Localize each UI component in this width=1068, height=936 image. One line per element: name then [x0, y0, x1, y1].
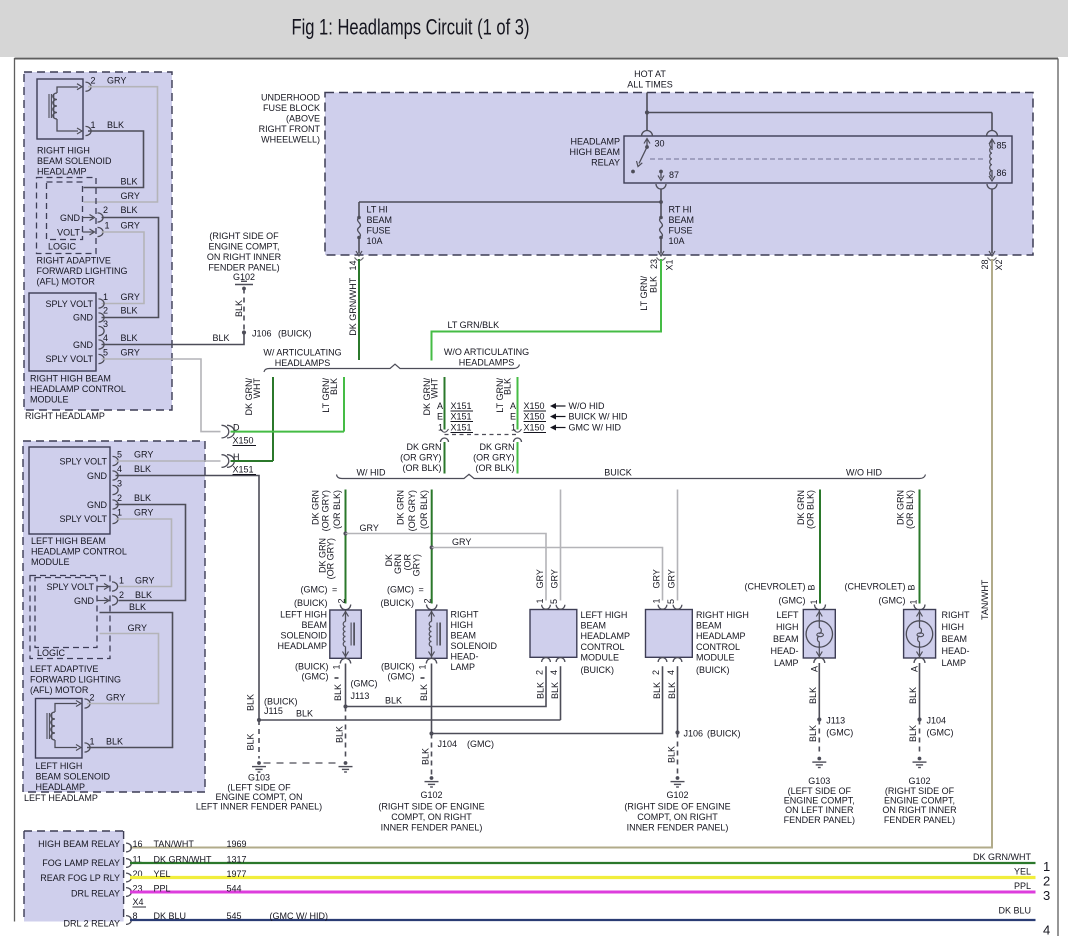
wire BLK left solenoid pin1 to logic: [87, 613, 173, 748]
svg-text:FENDER PANEL): FENDER PANEL): [884, 815, 955, 825]
wire BLK right mid solenoid to J104: [431, 664, 433, 734]
left AFL logic dashed box: [35, 578, 97, 648]
svg-text:(OR BLK): (OR BLK): [402, 463, 441, 473]
relay switch fixed contact: [631, 170, 635, 174]
svg-text:GRY: GRY: [134, 450, 153, 460]
wire hot feed into fuse block: [646, 93, 648, 113]
svg-text:(OR GRY): (OR GRY): [407, 490, 417, 531]
svg-text:Fig 1: Headlamps Circuit (1 of: Fig 1: Headlamps Circuit (1 of 3): [292, 15, 530, 40]
svg-text:PPL: PPL: [1014, 881, 1031, 891]
frame border top: [15, 58, 1059, 60]
ground at J113: [344, 761, 348, 765]
svg-text:SPLY VOLT: SPLY VOLT: [59, 457, 107, 467]
right mid solenoid bottom pin: [426, 658, 436, 663]
svg-text:X151: X151: [451, 412, 472, 422]
svg-text:SPLY VOLT: SPLY VOLT: [59, 514, 107, 524]
svg-text:(LEFT SIDE OF: (LEFT SIDE OF: [227, 782, 291, 792]
svg-text:5: 5: [117, 450, 122, 460]
svg-text:GRY: GRY: [651, 569, 661, 588]
svg-text:GND: GND: [87, 500, 108, 510]
wire TAN/WHT from relay to bottom relay box pin16: [130, 259, 992, 848]
svg-text:(RIGHT SIDE OF: (RIGHT SIDE OF: [885, 786, 955, 796]
wire BLK dashed J104 to ground: [431, 734, 433, 776]
svg-text:(AFL) MOTOR: (AFL) MOTOR: [37, 277, 96, 287]
svg-text:CONTROL: CONTROL: [696, 642, 740, 652]
svg-text:GRY: GRY: [135, 576, 154, 586]
svg-text:CONTROL: CONTROL: [581, 642, 625, 652]
svg-text:GND: GND: [73, 313, 94, 323]
svg-text:1: 1: [117, 508, 122, 518]
left module pin 4: [113, 471, 119, 480]
svg-text:LT GRN/: LT GRN/: [639, 276, 649, 311]
svg-text:E: E: [510, 412, 516, 422]
svg-text:GRY: GRY: [121, 191, 140, 201]
svg-text:A: A: [437, 401, 443, 411]
svg-text:FUSE BLOCK: FUSE BLOCK: [263, 103, 320, 113]
wire LT GRN/BLK from RT fuse: [432, 259, 662, 361]
svg-text:(GMC): (GMC): [467, 739, 494, 749]
svg-text:2: 2: [651, 670, 661, 675]
svg-text:GRN: GRN: [393, 554, 403, 574]
svg-text:3: 3: [103, 319, 108, 329]
svg-text:GRY: GRY: [535, 569, 545, 588]
left module pin 5: [113, 456, 119, 465]
svg-text:BLK: BLK: [536, 682, 546, 699]
svg-text:ALL TIMES: ALL TIMES: [627, 80, 673, 90]
svg-text:(OR GRY): (OR GRY): [400, 453, 441, 463]
svg-text:DK GRN: DK GRN: [406, 442, 441, 452]
svg-text:HOT AT: HOT AT: [634, 69, 666, 79]
svg-text:(LEFT SIDE OF: (LEFT SIDE OF: [788, 786, 852, 796]
svg-text:FUSE: FUSE: [669, 226, 693, 236]
svg-text:WHEELWELL): WHEELWELL): [261, 135, 320, 145]
relay pin 30 connector arc: [642, 131, 653, 137]
svg-text:GND: GND: [60, 213, 81, 223]
svg-text:GRY: GRY: [121, 348, 140, 358]
svg-text:DRL RELAY: DRL RELAY: [71, 889, 120, 899]
wire GRY drop to left module pin5: [560, 490, 562, 601]
svg-text:X150: X150: [524, 412, 545, 422]
svg-text:23: 23: [649, 259, 659, 269]
svg-text:DK BLU: DK BLU: [998, 906, 1031, 916]
svg-text:BEAM: BEAM: [773, 634, 799, 644]
svg-text:HEADLAMP CONTROL: HEADLAMP CONTROL: [30, 384, 126, 394]
wire LT GRN/BLK drop through X150: [517, 377, 519, 430]
node hot feed junction: [645, 110, 649, 114]
svg-text:FORWARD LIGHTING: FORWARD LIGHTING: [30, 675, 121, 685]
svg-text:BLK: BLK: [908, 687, 918, 704]
wire DK GRN/WHT drop to connector H: [272, 377, 274, 461]
svg-text:X1: X1: [665, 259, 675, 270]
solenoid pin 2 bracket: [86, 82, 92, 91]
svg-text:BLK: BLK: [296, 709, 313, 719]
right headlamp assembly dashed box: [24, 72, 172, 410]
svg-text:LEFT HIGH BEAM: LEFT HIGH BEAM: [31, 536, 106, 546]
wire GRY module pin5 to connector D: [102, 359, 221, 432]
svg-text:RELAY: RELAY: [591, 158, 620, 168]
svg-text:BLK: BLK: [107, 120, 124, 130]
svg-text:BLK: BLK: [808, 687, 818, 704]
wire BLK J113 to left buick module pin2: [346, 666, 547, 706]
svg-text:(OR GRY): (OR GRY): [473, 453, 514, 463]
svg-text:1977: 1977: [227, 869, 247, 879]
relay pin 87 connector arc: [656, 184, 666, 189]
svg-text:=: =: [419, 585, 424, 595]
svg-text:(OR BLK): (OR BLK): [905, 490, 915, 529]
svg-text:1: 1: [90, 737, 95, 747]
svg-text:SOLENOID: SOLENOID: [280, 631, 327, 641]
svg-text:(GMC): (GMC): [927, 728, 954, 738]
wire GRY AFL pin1 to module pin1: [102, 232, 145, 304]
underhood fuse block dashed box: [325, 93, 1033, 256]
svg-text:MODULE: MODULE: [696, 652, 735, 662]
left solenoid pin 1 lead: [55, 740, 77, 748]
svg-text:LOGIC: LOGIC: [48, 242, 77, 252]
svg-text:(BUICK): (BUICK): [278, 329, 312, 339]
svg-text:BLK: BLK: [129, 602, 146, 612]
svg-text:(BUICK): (BUICK): [707, 729, 741, 739]
left solenoid pin 2 lead: [55, 704, 77, 713]
svg-text:W/O ARTICULATING: W/O ARTICULATING: [444, 347, 529, 357]
svg-text:UNDERHOOD: UNDERHOOD: [261, 93, 321, 103]
ground G103 symbol: [257, 761, 261, 765]
svg-text:SPLY VOLT: SPLY VOLT: [45, 354, 93, 364]
svg-text:16: 16: [133, 839, 143, 849]
relay box pin 20: [126, 873, 131, 882]
relay pin 87 contact: [659, 170, 663, 174]
svg-text:GND: GND: [74, 596, 95, 606]
svg-text:1: 1: [91, 120, 96, 130]
svg-text:LEFT: LEFT: [776, 610, 799, 620]
module pin 2: [99, 313, 105, 322]
junction J106 BUICK: [242, 330, 246, 334]
frame border right: [1057, 59, 1059, 936]
wire GRY tap to right buick module pin1: [432, 548, 663, 601]
svg-text:BLK: BLK: [135, 590, 152, 600]
svg-text:85: 85: [997, 141, 1007, 151]
svg-text:5: 5: [666, 599, 676, 604]
ground G102 at lower J106: [676, 776, 680, 780]
junction J115 BUICK: [257, 718, 261, 722]
wire relay pin86 to exit X2: [991, 189, 993, 254]
svg-text:BLK: BLK: [121, 306, 138, 316]
svg-text:BLK: BLK: [419, 684, 429, 701]
svg-text:BLK: BLK: [329, 378, 339, 395]
relay coil: [990, 142, 992, 177]
svg-text:HIGH: HIGH: [451, 620, 474, 630]
svg-text:2: 2: [119, 590, 124, 600]
svg-text:COMPT, ON RIGHT: COMPT, ON RIGHT: [391, 812, 472, 822]
svg-text:(BUICK): (BUICK): [295, 662, 329, 672]
svg-text:(OR GRY): (OR GRY): [326, 538, 336, 579]
svg-text:BLK: BLK: [246, 694, 256, 711]
svg-text:A: A: [510, 401, 516, 411]
svg-text:BUICK W/ HID: BUICK W/ HID: [569, 412, 629, 422]
svg-text:(RIGHT SIDE OF: (RIGHT SIDE OF: [209, 231, 279, 241]
svg-text:RIGHT FRONT: RIGHT FRONT: [259, 124, 321, 134]
right buick high beam headlamp control module: [646, 610, 693, 658]
right high beam solenoid coil: [53, 93, 57, 119]
svg-text:HEADLAMPS: HEADLAMPS: [275, 358, 331, 368]
svg-text:RIGHT HIGH: RIGHT HIGH: [37, 146, 90, 156]
svg-text:(GMC): (GMC): [301, 585, 328, 595]
wire DK GRN drop to left solenoid: [345, 490, 347, 604]
svg-text:HEADLAMP: HEADLAMP: [277, 641, 327, 651]
title bar: [0, 0, 1068, 57]
svg-text:GRY: GRY: [360, 523, 379, 533]
svg-text:5: 5: [549, 599, 559, 604]
wire DK GRN drop to right solenoid: [431, 490, 433, 604]
left buick high beam headlamp control module: [530, 610, 577, 658]
svg-text:MODULE: MODULE: [581, 652, 620, 662]
svg-text:(CHEVROLET): (CHEVROLET): [844, 582, 905, 592]
svg-text:GND: GND: [87, 471, 108, 481]
svg-text:HIGH: HIGH: [776, 622, 799, 632]
wire BLK left module pin2 to AFL: [116, 505, 186, 601]
headlamp high beam relay box: [624, 136, 1012, 183]
svg-text:(BUICK): (BUICK): [381, 662, 415, 672]
svg-text:1: 1: [103, 292, 108, 302]
svg-text:(GMC): (GMC): [388, 672, 415, 682]
svg-text:2: 2: [1043, 874, 1050, 889]
wire GRY left module pin1 to AFL: [116, 519, 172, 587]
RT HI BEAM FUSE: [660, 202, 662, 218]
left module pin 3: [113, 485, 119, 494]
svg-text:INNER FENDER PANEL): INNER FENDER PANEL): [627, 823, 729, 833]
svg-text:BLK: BLK: [121, 333, 138, 343]
svg-text:1: 1: [909, 599, 919, 604]
solenoid pin 1 lead: [57, 119, 78, 131]
svg-text:(OR BLK): (OR BLK): [419, 490, 429, 529]
svg-text:DK GRN/WHT: DK GRN/WHT: [973, 852, 1031, 862]
svg-text:BEAM: BEAM: [451, 631, 477, 641]
svg-text:(BUICK): (BUICK): [581, 665, 615, 675]
svg-text:HEAD-: HEAD-: [942, 646, 970, 656]
relay internal dashed link: [650, 158, 985, 160]
module pin 3: [99, 326, 105, 335]
wire hot feed to relay coil: [647, 112, 992, 114]
left high beam headlamp control module box: [29, 447, 110, 534]
svg-text:DK GRN/WHT: DK GRN/WHT: [348, 277, 358, 335]
svg-text:BLK: BLK: [649, 276, 659, 293]
svg-text:1: 1: [105, 221, 110, 231]
svg-text:DK GRN: DK GRN: [796, 490, 806, 525]
svg-text:BLK: BLK: [106, 737, 123, 747]
svg-text:J106: J106: [252, 329, 272, 339]
svg-text:1: 1: [418, 664, 428, 669]
svg-text:HEAD-: HEAD-: [770, 646, 798, 656]
wire BLK lamp to J113: [818, 663, 820, 720]
svg-text:X150: X150: [233, 436, 254, 446]
svg-text:(GMC): (GMC): [351, 679, 378, 689]
svg-text:VOLT: VOLT: [57, 228, 80, 238]
svg-text:SPLY VOLT: SPLY VOLT: [45, 299, 93, 309]
svg-text:G102: G102: [420, 790, 442, 800]
svg-text:4: 4: [1043, 923, 1050, 936]
node GRY tap right: [430, 545, 434, 549]
wire LT GRN/BLK connector D to drop: [231, 431, 345, 433]
wire DK GRN/WHT circuit 1317: [130, 862, 1036, 864]
svg-text:E: E: [437, 412, 443, 422]
wire DK GRN/WHT connector H to drop: [231, 460, 274, 462]
svg-text:2: 2: [337, 598, 347, 603]
svg-text:2: 2: [103, 306, 108, 316]
svg-text:YEL: YEL: [1014, 867, 1031, 877]
module pin 1: [99, 299, 105, 308]
wire GRY solenoid pin2 to AFL logic: [84, 87, 158, 202]
svg-text:2: 2: [423, 598, 433, 603]
relay box pin 23: [126, 888, 131, 897]
wire YEL circuit 1977: [130, 876, 1036, 879]
bottom relay center dashed box: [24, 831, 124, 922]
svg-text:GRY: GRY: [549, 569, 559, 588]
svg-text:GRY: GRY: [134, 508, 153, 518]
left AFL motor dashed box: [30, 576, 110, 659]
relay box pin 11: [126, 859, 131, 868]
svg-text:1: 1: [511, 423, 516, 433]
svg-text:(ABOVE: (ABOVE: [286, 114, 320, 124]
svg-text:4: 4: [666, 670, 676, 675]
module pin 5: [99, 354, 105, 363]
svg-text:BLK: BLK: [134, 464, 151, 474]
svg-text:1317: 1317: [227, 854, 247, 864]
junction J106 BUICK lower: [675, 730, 679, 734]
svg-text:BLK: BLK: [333, 684, 343, 701]
svg-text:GRY: GRY: [121, 292, 140, 302]
svg-text:ENGINE COMPT, ON: ENGINE COMPT, ON: [215, 792, 302, 802]
wire GRY tap to left buick module pin1: [346, 534, 547, 601]
right mid solenoid internal element: [431, 610, 433, 622]
svg-text:10A: 10A: [367, 236, 383, 246]
svg-text:LAMP: LAMP: [774, 658, 799, 668]
svg-text:(OR BLK): (OR BLK): [332, 490, 342, 529]
svg-text:DK GRN/WHT: DK GRN/WHT: [154, 854, 212, 864]
wire BLK left mid solenoid to J113: [345, 664, 347, 707]
svg-text:BLK: BLK: [246, 733, 256, 750]
right high beam headlamp bulb: [904, 610, 936, 659]
module pin 4: [99, 340, 105, 349]
svg-text:GRY: GRY: [666, 569, 676, 588]
wire BLK lamp to J104: [919, 663, 921, 720]
svg-text:X2: X2: [994, 259, 1004, 270]
ground G102 symbol: [241, 280, 247, 282]
wire BLK module pin4 to J106: [102, 333, 245, 345]
left high beam headlamp bulb: [803, 610, 835, 659]
right AFL logic dashed box: [47, 182, 83, 240]
svg-text:4: 4: [117, 464, 122, 474]
connector D X150: [222, 425, 229, 438]
svg-text:FENDER PANEL): FENDER PANEL): [208, 263, 279, 273]
left high beam solenoid headlamp box: [36, 699, 83, 759]
svg-text:WHT: WHT: [252, 378, 262, 399]
svg-text:LEFT ADAPTIVE: LEFT ADAPTIVE: [30, 664, 98, 674]
svg-text:WHT: WHT: [430, 378, 440, 399]
svg-text:BEAM: BEAM: [301, 620, 327, 630]
svg-text:DK GRN: DK GRN: [896, 490, 906, 525]
svg-text:TAN/WHT: TAN/WHT: [980, 579, 990, 620]
svg-text:HEADLAMP: HEADLAMP: [570, 137, 620, 147]
svg-text:BEAM SOLENOID: BEAM SOLENOID: [37, 156, 112, 166]
svg-text:5: 5: [103, 348, 108, 358]
svg-text:ENGINE COMPT,: ENGINE COMPT,: [884, 796, 955, 806]
svg-text:HIGH BEAM RELAY: HIGH BEAM RELAY: [38, 839, 120, 849]
svg-text:4: 4: [103, 333, 108, 343]
dashed link between G103 grounds: [264, 762, 342, 764]
svg-text:J106: J106: [684, 729, 704, 739]
svg-text:1: 1: [119, 576, 124, 586]
svg-text:14: 14: [348, 260, 358, 270]
wire GRY drop to right module pin5: [677, 490, 679, 601]
svg-text:X151: X151: [451, 423, 472, 433]
relay pin 30 arrow: [646, 140, 648, 147]
svg-text:LOGIC: LOGIC: [37, 648, 66, 658]
svg-text:BLK: BLK: [121, 205, 138, 215]
wire LT GRN/BLK below X150 to brace2: [517, 442, 519, 474]
svg-text:B: B: [907, 584, 917, 590]
svg-text:2: 2: [535, 670, 545, 675]
svg-text:BEAM: BEAM: [367, 215, 393, 225]
svg-text:(BUICK): (BUICK): [294, 598, 328, 608]
svg-text:RIGHT: RIGHT: [451, 610, 480, 620]
wire BLK AFL pin2 to module pin2: [102, 218, 159, 318]
svg-text:GRY: GRY: [452, 537, 471, 547]
svg-text:1969: 1969: [227, 839, 247, 849]
svg-text:LEFT HIGH: LEFT HIGH: [280, 610, 327, 620]
svg-text:3: 3: [1043, 888, 1050, 903]
svg-text:HEADLAMP: HEADLAMP: [37, 167, 87, 177]
svg-text:(GMC W/ HID): (GMC W/ HID): [270, 911, 329, 921]
svg-text:LAMP: LAMP: [942, 658, 967, 668]
svg-text:BEAM: BEAM: [581, 621, 607, 631]
node fuse feed junction: [659, 200, 663, 204]
left module pin 2: [113, 500, 119, 509]
svg-text:X4: X4: [133, 897, 144, 907]
svg-text:(BUICK): (BUICK): [381, 598, 415, 608]
wire RT fuse to exit X1: [660, 239, 662, 254]
wire BLK dashed J115 to G103: [258, 720, 260, 759]
svg-text:BLK: BLK: [213, 333, 230, 343]
svg-text:RIGHT ADAPTIVE: RIGHT ADAPTIVE: [37, 256, 111, 266]
svg-text:YEL: YEL: [154, 869, 171, 879]
svg-text:FUSE: FUSE: [367, 226, 391, 236]
svg-text:(AFL) MOTOR: (AFL) MOTOR: [30, 685, 89, 695]
svg-text:FORWARD LIGHTING: FORWARD LIGHTING: [37, 266, 128, 276]
svg-text:REAR FOG LP RLY: REAR FOG LP RLY: [40, 873, 120, 883]
relay box pin 8: [126, 916, 131, 925]
svg-text:LAMP: LAMP: [451, 662, 476, 672]
brace articulating options: [264, 364, 520, 372]
svg-text:HEADLAMP: HEADLAMP: [36, 782, 86, 792]
svg-text:FENDER PANEL): FENDER PANEL): [784, 815, 855, 825]
svg-text:MODULE: MODULE: [31, 557, 70, 567]
relay switch pivot: [645, 145, 649, 149]
svg-text:LT HI: LT HI: [367, 205, 388, 215]
svg-text:544: 544: [227, 883, 242, 893]
svg-text:PPL: PPL: [154, 883, 171, 893]
svg-text:B: B: [807, 584, 817, 590]
wire GRY left solenoid pin2 to logic: [87, 634, 159, 704]
wire BLK left buick module pin4 from J115: [560, 666, 562, 720]
svg-text:87: 87: [669, 170, 679, 180]
junction J113 BUICK: [343, 704, 347, 708]
svg-text:1: 1: [809, 599, 819, 604]
wire DK GRN drop to left headlamp: [819, 490, 821, 604]
relay coil pin 85 arrow: [987, 131, 998, 137]
svg-text:BEAM: BEAM: [696, 621, 722, 631]
svg-text:HIGH BEAM: HIGH BEAM: [569, 147, 620, 157]
svg-text:GRY: GRY: [107, 76, 126, 86]
svg-text:G103: G103: [248, 773, 270, 783]
